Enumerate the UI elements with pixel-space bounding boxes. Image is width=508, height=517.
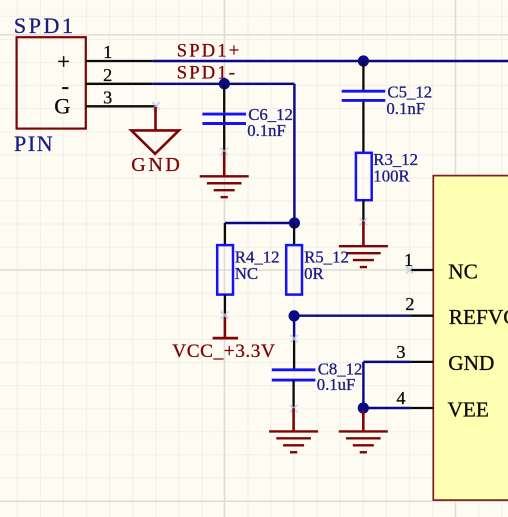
earth ground below C6 [223,152,226,177]
svg-text:0R: 0R [304,264,324,283]
no-connect marker pin 1 [406,267,413,274]
svg-text:PIN: PIN [14,131,54,156]
svg-text:SPD1: SPD1 [14,13,76,38]
no-connect marker pin3/GND [152,102,160,110]
svg-text:NC: NC [448,259,478,283]
IC U1 body [433,176,508,501]
svg-text:+: + [57,49,70,74]
R4 bottom lead [224,295,226,315]
earth ground below junction [362,410,365,431]
junction R5/C8/pin2 [289,310,300,321]
svg-text:VCC_+3.3V: VCC_+3.3V [172,341,275,362]
SPD1 pin 3 [86,105,157,107]
earth ground below C8 [292,408,295,431]
C8 bottom lead [292,380,294,408]
capacitor C5 plates [342,90,386,93]
wire R5 bottom to pin2 [294,314,411,316]
IC pin 1 NC [411,269,434,271]
capacitor C6 plates [202,113,246,116]
wire junction to R4 [225,222,295,224]
junction pin3/pin4 [358,402,369,413]
svg-text:3: 3 [103,87,112,107]
wire net SPD1+ [153,60,508,62]
connector SPD1 body [17,37,86,128]
wire pin3 vertical [362,362,364,408]
R4 top lead [224,223,226,245]
C8 top lead black [293,339,295,369]
svg-text:GND: GND [448,351,494,375]
svg-text:0.1nF: 0.1nF [247,121,286,140]
svg-text:NC: NC [235,264,258,283]
svg-text:GND: GND [131,154,182,176]
svg-text:G: G [54,94,70,119]
SPD1 pin 2 [86,83,153,85]
IC pin 4 VEE [411,407,434,409]
wire SPD1- vertical down [293,84,295,223]
svg-text:3: 3 [396,342,405,362]
resistor R5 [286,245,302,295]
IC pin 2 REFVCC [411,315,434,317]
IC pin 3 GND [411,361,434,363]
R3 bottom lead [362,200,364,221]
svg-text:SPD1+: SPD1+ [177,41,242,61]
svg-text:1: 1 [103,42,112,62]
resistor R4 [217,245,233,295]
svg-text:2: 2 [103,65,112,85]
junction C6/SPD1- [219,78,230,89]
resistor R3 [356,153,372,200]
earth ground below R3 [362,221,365,246]
SPD1 pin 1 [86,60,153,62]
svg-text:4: 4 [396,388,405,408]
svg-text:1: 1 [404,250,413,270]
junction C5/SPD1+ [358,55,369,66]
svg-text:0.1nF: 0.1nF [386,99,425,118]
svg-text:100R: 100R [373,166,410,185]
wire junction2 down to C8 [293,316,295,339]
wire pin4 [363,407,410,409]
svg-text:VEE: VEE [448,397,489,421]
R5 top lead [293,223,295,245]
svg-text:2: 2 [405,294,414,314]
wire pin3 horizontal [363,361,410,363]
power port VCC bar [224,315,227,338]
no-connect marker R3 [360,218,368,226]
no-connect marker C6 [220,148,228,156]
no-connect marker C8 [290,335,298,343]
wire net SPD1- horizontal [153,83,295,85]
junction SPD1- / R4 / R5 [289,217,300,228]
capacitor C6 leads [223,84,225,113]
capacitor C8 plates [272,368,316,371]
power port GND triangle [154,107,157,130]
capacitor C5 leads [362,61,364,90]
svg-text:0.1uF: 0.1uF [317,375,356,394]
svg-text:REFVCC: REFVCC [449,305,508,329]
